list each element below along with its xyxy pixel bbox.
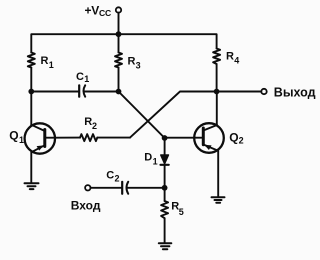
wire cross-coupling R3 node to Q2 base bbox=[119, 92, 165, 139]
terminal +Vcc bbox=[116, 7, 121, 12]
svg-text:Выход: Выход bbox=[274, 86, 316, 100]
svg-text:3: 3 bbox=[136, 61, 141, 71]
junction Vcc node bbox=[116, 31, 122, 37]
transistor Q1 bbox=[25, 123, 55, 153]
terminal input bbox=[85, 185, 90, 190]
svg-text:2: 2 bbox=[239, 136, 244, 146]
wire Q2 emitter to ground bbox=[217, 151, 219, 197]
wire output bbox=[217, 91, 262, 93]
svg-text:1: 1 bbox=[19, 135, 24, 145]
label R1 bbox=[41, 55, 54, 70]
resistor R3 bbox=[115, 34, 122, 91]
svg-text:C: C bbox=[106, 169, 114, 181]
svg-text:R: R bbox=[41, 55, 49, 67]
label R4 bbox=[226, 51, 239, 66]
svg-text:1: 1 bbox=[49, 60, 54, 70]
svg-text:1: 1 bbox=[153, 156, 158, 166]
label C1 bbox=[76, 71, 89, 84]
ground Q1 bbox=[25, 183, 39, 189]
label Q2 bbox=[229, 131, 243, 146]
resistor R1 bbox=[28, 53, 35, 68]
diode D1 bbox=[161, 138, 169, 188]
svg-text:5: 5 bbox=[179, 207, 184, 217]
resistor R2 bbox=[55, 134, 130, 141]
wire cross-coupling R2 to output node bbox=[130, 92, 217, 138]
resistor R5 bbox=[161, 188, 168, 242]
svg-text:1: 1 bbox=[84, 74, 89, 84]
svg-text:Q: Q bbox=[229, 131, 238, 145]
svg-text:R: R bbox=[226, 51, 234, 63]
junction D1-R5-C2 node bbox=[162, 185, 168, 191]
wire top rail bbox=[31, 34, 216, 52]
label R3 bbox=[128, 56, 141, 71]
svg-text:D: D bbox=[144, 152, 152, 164]
ground R5 bbox=[159, 243, 172, 249]
capacitor C1 bbox=[31, 85, 118, 96]
wire Q2 base bbox=[165, 137, 204, 139]
label R2 bbox=[84, 116, 97, 131]
junction R3-C1 node bbox=[116, 89, 122, 95]
label C2 bbox=[106, 169, 119, 183]
wire Q1 emitter to ground bbox=[30, 152, 32, 182]
svg-text:+V: +V bbox=[85, 3, 100, 17]
svg-text:4: 4 bbox=[234, 56, 239, 66]
wire R1 to Q1 collector bbox=[30, 68, 32, 126]
label Вход bbox=[71, 199, 101, 213]
junction output node bbox=[214, 89, 220, 95]
label D1 bbox=[144, 152, 157, 167]
wire Q2 collector to output node bbox=[216, 92, 218, 126]
wire +Vcc stem bbox=[118, 13, 120, 35]
label Выход bbox=[274, 86, 316, 100]
terminal output bbox=[261, 89, 266, 94]
svg-text:R: R bbox=[128, 56, 136, 68]
svg-text:CC: CC bbox=[99, 8, 111, 18]
svg-text:2: 2 bbox=[115, 173, 120, 183]
label R5 bbox=[171, 201, 184, 217]
label +Vcc bbox=[85, 3, 112, 17]
transistor Q2 bbox=[194, 123, 224, 153]
svg-text:C: C bbox=[76, 71, 84, 83]
svg-text:Q: Q bbox=[9, 129, 18, 143]
ground Q2 bbox=[212, 197, 225, 203]
junction Q2 base node bbox=[162, 135, 168, 141]
svg-text:Вход: Вход bbox=[71, 199, 101, 213]
svg-text:2: 2 bbox=[92, 121, 97, 131]
capacitor C2 bbox=[91, 182, 165, 194]
junction C1 left node bbox=[28, 89, 34, 95]
label Q1 bbox=[9, 129, 24, 146]
resistor R4 bbox=[213, 49, 220, 92]
